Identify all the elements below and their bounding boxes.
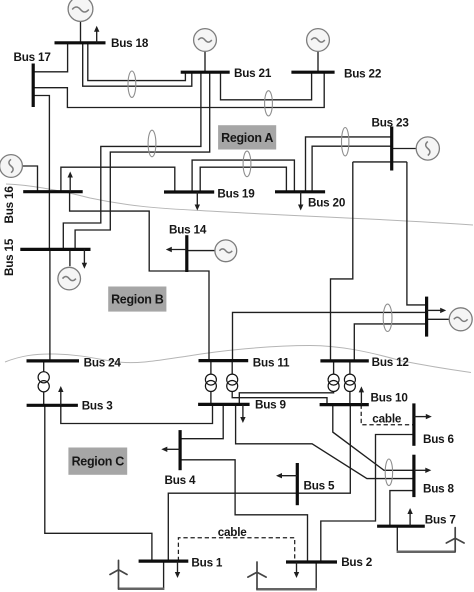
svg-text:Bus 17: Bus 17 <box>14 51 51 64</box>
svg-text:cable: cable <box>218 526 248 539</box>
transformer T9-11 <box>205 374 216 391</box>
wire line 8-10 <box>333 405 414 471</box>
svg-text:Bus 16: Bus 16 <box>3 186 16 224</box>
load arrow bus 19 <box>195 192 200 211</box>
bus 24 bar <box>27 359 80 362</box>
wire line 15-21 circuit 2 <box>75 72 210 249</box>
wire generator lead bus 16 <box>22 166 37 192</box>
load arrow bus 3 <box>58 386 63 405</box>
ellipse marker lines 11-13 12-13 <box>383 304 392 331</box>
wire line 21-22 <box>221 72 312 100</box>
wire generator lead bus 21 <box>204 51 206 72</box>
load arrow bus 10 <box>359 386 364 404</box>
load arrow bus 2 <box>294 562 299 578</box>
svg-text:Bus 21: Bus 21 <box>234 67 272 80</box>
Region A box <box>218 125 276 149</box>
region boundary B/C wavy line <box>5 346 471 373</box>
wire wind turbine ground link bus 2 <box>256 588 317 591</box>
wire line 14-16 <box>70 192 187 271</box>
svg-text:Region B: Region B <box>111 293 164 307</box>
wind turbine G7 <box>446 528 464 552</box>
load arrow bus 7 <box>407 508 412 526</box>
cable 1-2 dashed <box>178 538 294 562</box>
bus 20 bar <box>275 190 325 193</box>
svg-text:Bus 23: Bus 23 <box>372 117 410 130</box>
svg-text:Bus 11: Bus 11 <box>253 357 290 370</box>
ellipse marker line 18-21 <box>128 71 136 97</box>
svg-text:Region A: Region A <box>221 131 273 145</box>
generator G18 <box>68 0 93 21</box>
wire line 1-5 <box>168 493 297 561</box>
svg-text:Bus 12: Bus 12 <box>372 356 410 369</box>
wire line 18-21 circuit 1 <box>83 43 192 86</box>
generator G23 <box>416 137 439 160</box>
bus 7 bar <box>377 525 425 528</box>
wire line 12-23 <box>331 162 353 361</box>
bus 11 bar <box>199 359 249 362</box>
wire transformer 10-11 leads <box>232 361 327 405</box>
svg-text:Bus 10: Bus 10 <box>371 392 409 405</box>
load arrow bus 6 <box>414 414 432 419</box>
ellipse marker line 20-23 <box>342 128 349 156</box>
load arrow bus 20 <box>298 192 303 211</box>
bus 3 bar <box>27 404 78 407</box>
bus 5 bar <box>296 463 299 505</box>
wire line 4-9 <box>180 404 223 438</box>
wire line 8-9 <box>236 404 414 478</box>
wire line 19-20 circuit 2 <box>200 167 286 192</box>
wire transformer 9-12 leads <box>239 361 333 405</box>
svg-text:Bus 1: Bus 1 <box>191 556 223 569</box>
svg-text:Bus 9: Bus 9 <box>255 399 287 412</box>
svg-text:Bus 3: Bus 3 <box>82 399 114 412</box>
wire line 17-22 <box>33 72 324 107</box>
wire line 18-21 circuit 2 <box>88 43 186 81</box>
generator G21 <box>194 29 217 52</box>
wire line 1-3 <box>45 405 152 561</box>
transformer T10-11 <box>227 374 238 391</box>
generator G13 <box>449 308 472 331</box>
wire line 16-19 <box>61 167 175 192</box>
wire node segment at bus 23 <box>353 161 407 163</box>
bus 4 bar <box>179 430 182 470</box>
wire line 15-21 circuit 1 <box>63 72 201 249</box>
wire line 20-23 circuit 1 <box>306 137 392 192</box>
wire wind turbine drop bus 7 <box>396 526 398 551</box>
bus 9 bar <box>198 403 250 406</box>
bus 12 bar <box>320 359 368 362</box>
svg-text:Region C: Region C <box>72 455 125 469</box>
wire generator lead bus 18 <box>80 21 82 42</box>
wire generator lead bus 14 <box>187 250 215 252</box>
wire line 15-24 <box>49 249 51 361</box>
wire line 2-4 <box>180 460 307 562</box>
svg-text:Bus 7: Bus 7 <box>425 514 456 527</box>
Region B box <box>108 287 166 312</box>
svg-text:Bus 5: Bus 5 <box>304 479 336 492</box>
wire wind turbine drop bus 1 <box>163 561 165 588</box>
transformer T10-12 <box>344 374 355 391</box>
svg-text:Bus 15: Bus 15 <box>3 238 16 276</box>
wire wind turbine drop bus 2 <box>315 562 317 589</box>
wire transformer 3-24 lower lead <box>43 392 45 406</box>
wire line 19-20 circuit 1 <box>192 160 294 192</box>
bus 13 bar <box>425 297 428 337</box>
bus 23 bar <box>390 127 393 171</box>
Region C box <box>68 448 127 475</box>
wire line 5-10 <box>297 405 350 494</box>
load arrow bus 13 <box>427 308 447 313</box>
load arrow bus 15 <box>82 249 87 268</box>
wire wind turbine ground link bus 1 <box>118 588 165 591</box>
bus 6 bar <box>412 403 415 445</box>
svg-text:Bus 6: Bus 6 <box>423 433 455 446</box>
load arrow bus 16 <box>68 172 73 192</box>
wire line 15-16 <box>48 192 50 249</box>
bus 2 bar <box>286 560 337 563</box>
ellipse marker line 21-22 <box>265 91 273 116</box>
wire line 3-9 <box>61 404 213 423</box>
ellipse marker lines 8-9 8-10 <box>385 459 392 486</box>
load arrow bus 5 <box>276 473 297 478</box>
svg-text:Bus 19: Bus 19 <box>217 188 255 201</box>
load arrow bus 8 <box>414 468 431 473</box>
svg-text:Bus 4: Bus 4 <box>165 474 197 487</box>
wire transformer 10-12 leads <box>349 361 351 405</box>
svg-text:Bus 2: Bus 2 <box>341 556 373 569</box>
bus 1 bar <box>139 559 189 562</box>
svg-text:Bus 14: Bus 14 <box>169 224 207 237</box>
bus 22 bar <box>291 71 334 74</box>
bus 19 bar <box>164 190 214 193</box>
svg-text:Bus 8: Bus 8 <box>423 482 455 495</box>
wire line 17-18 <box>33 43 67 72</box>
wire line 7-8 <box>390 491 414 527</box>
svg-text:Bus 22: Bus 22 <box>344 68 382 81</box>
transformer T3-24 <box>38 372 49 392</box>
wire generator lead bus 13 <box>427 318 450 320</box>
bus 16 bar <box>23 190 82 193</box>
svg-text:cable: cable <box>372 413 402 426</box>
bus 17 bar <box>32 64 35 108</box>
generator G14 <box>215 240 237 262</box>
wire line 11-14 <box>187 271 209 361</box>
load arrow bus 14 <box>166 247 187 252</box>
bus 21 bar <box>181 71 230 74</box>
wind turbine G2 <box>248 562 266 589</box>
wire line 13-23 <box>407 162 427 305</box>
ellipse marker line 15-21 <box>148 130 156 157</box>
load arrow bus 18 <box>94 26 99 43</box>
ellipse marker line 19-20 <box>243 151 251 177</box>
generator G16 <box>0 155 22 178</box>
wire generator lead bus 22 <box>317 51 319 72</box>
wire transformer 9-11 leads <box>210 361 212 405</box>
wire wind turbine ground link bus 7 <box>397 550 456 553</box>
wire line 16-17 <box>33 96 49 192</box>
wire line 20-23 circuit 2 <box>312 146 392 192</box>
wire generator lead bus 23 <box>392 148 417 150</box>
wire line 2-6 <box>321 435 414 563</box>
bus 18 bar <box>55 41 106 44</box>
wind turbine G1 <box>110 560 127 588</box>
wire line 11-13 <box>233 312 427 360</box>
wire line 12-13 <box>354 324 426 361</box>
bus 14 bar <box>185 235 188 272</box>
region boundary A/B wavy line <box>6 184 473 225</box>
transformer T9-12 <box>328 374 339 391</box>
load arrow bus 9 <box>240 404 245 423</box>
bus 10 bar <box>320 403 369 406</box>
load arrow bus 4 <box>161 447 180 452</box>
svg-text:Bus 18: Bus 18 <box>111 37 149 50</box>
wire transformer 3-24 upper lead <box>43 361 45 372</box>
generator G15 <box>58 267 81 290</box>
bus 15 bar <box>20 248 90 251</box>
svg-text:Bus 20: Bus 20 <box>308 197 346 210</box>
generator G22 <box>307 29 330 52</box>
wire generator lead bus 15 <box>69 249 71 266</box>
load arrow bus 1 <box>175 561 180 578</box>
bus 8 bar <box>412 455 415 497</box>
cable 6-10 dashed <box>361 405 414 425</box>
svg-text:Bus 24: Bus 24 <box>84 357 122 370</box>
